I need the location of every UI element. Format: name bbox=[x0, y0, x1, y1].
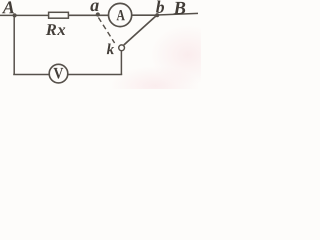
node junction dot at A bbox=[13, 13, 17, 17]
switch k label bbox=[107, 44, 114, 55]
wire k to bottom bbox=[120, 51, 122, 75]
wire A to resistor bbox=[0, 14, 49, 16]
switch k terminal circle bbox=[119, 45, 125, 51]
node a dot bbox=[96, 12, 100, 16]
node B label bbox=[173, 2, 185, 14]
wire ammeter to b bbox=[132, 14, 157, 16]
wire bottom left segment bbox=[13, 74, 49, 76]
wire b to B terminal bbox=[157, 13, 198, 15]
wire left vertical bbox=[13, 15, 15, 74]
node A label bbox=[2, 1, 14, 13]
switch k blade closed to b bbox=[124, 15, 157, 45]
node b dot bbox=[155, 13, 159, 17]
value label Rx bbox=[46, 24, 56, 35]
wire bottom right segment bbox=[68, 74, 123, 76]
wire resistor to ammeter bbox=[69, 14, 110, 16]
resistor Rx bbox=[49, 12, 69, 18]
switch k dashed throw to a bbox=[98, 18, 114, 44]
voltmeter U2 bbox=[49, 64, 68, 83]
node a label bbox=[90, 3, 98, 12]
node b label bbox=[156, 1, 164, 13]
ammeter U1 bbox=[109, 3, 132, 26]
